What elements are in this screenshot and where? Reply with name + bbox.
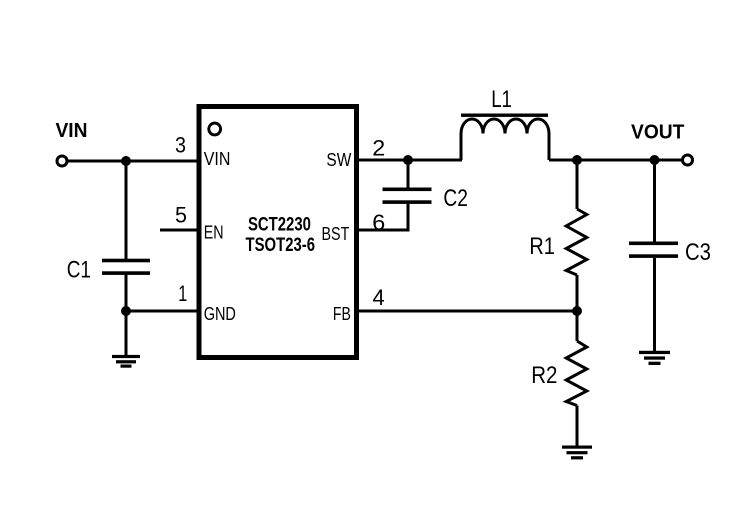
wire R1 bottom to FB node: [576, 275, 579, 311]
svg-text:L1: L1: [491, 86, 512, 113]
svg-text:3: 3: [175, 133, 186, 158]
wire L1 to VOUT terminal: [549, 159, 683, 162]
svg-text:4: 4: [373, 285, 385, 310]
ground (C1): [112, 355, 140, 368]
svg-text:VIN: VIN: [204, 149, 231, 169]
node junction R1 top: [572, 155, 582, 165]
wire R2 bottom to ground: [576, 406, 579, 447]
pin-1 indicator circle: [209, 123, 221, 135]
svg-text:VIN: VIN: [56, 120, 88, 142]
wire C3 bottom to ground: [653, 258, 656, 352]
wire C2 top: [407, 160, 410, 188]
inductor L1 core bar: [461, 114, 548, 117]
wire GND node to IC pin 1: [126, 310, 199, 313]
svg-text:C1: C1: [67, 257, 91, 284]
wire EN stub: [160, 229, 199, 232]
node junction at C1 top: [121, 156, 131, 166]
svg-text:C2: C2: [443, 185, 468, 212]
svg-text:BST: BST: [322, 224, 350, 244]
svg-text:6: 6: [372, 210, 385, 235]
inductor L1 coils: [461, 119, 549, 160]
wire C3 top lead: [653, 160, 656, 242]
wire C1 bottom to GND node: [125, 275, 128, 312]
svg-text:VOUT: VOUT: [631, 122, 684, 144]
wire C2 bottom to BST: [357, 204, 409, 230]
svg-text:SW: SW: [326, 150, 351, 170]
svg-text:1: 1: [178, 281, 187, 306]
svg-text:SCT2230: SCT2230: [248, 214, 311, 235]
op IC U1 SCT2230 body: [199, 107, 357, 358]
wire FB pin to divider node: [357, 310, 578, 313]
wire VIN terminal to IC pin 3: [68, 160, 200, 163]
node junction GND pin / C1: [121, 306, 131, 316]
svg-text:R2: R2: [531, 362, 557, 389]
capacitor C1: [102, 259, 150, 275]
ground (C3): [639, 351, 670, 365]
svg-text:R1: R1: [529, 233, 555, 260]
node junction FB / R1 / R2: [572, 306, 582, 316]
svg-text:2: 2: [372, 136, 385, 161]
node junction C3 top: [650, 155, 660, 165]
wire R2 top lead: [576, 311, 579, 341]
capacitor C3: [629, 242, 678, 258]
resistor R2: [566, 341, 587, 406]
resistor R1: [566, 209, 587, 275]
wire R1 top lead: [576, 160, 579, 209]
svg-text:FB: FB: [333, 304, 351, 324]
svg-text:TSOT23-6: TSOT23-6: [246, 235, 316, 256]
svg-text:GND: GND: [204, 304, 236, 324]
node junction SW / C2: [403, 155, 413, 165]
svg-text:C3: C3: [685, 239, 711, 266]
wire C1 top: [125, 161, 128, 260]
terminal VOUT (open circle): [683, 155, 693, 165]
svg-text:EN: EN: [204, 223, 224, 243]
ground (R2): [562, 446, 592, 460]
capacitor C2: [383, 188, 432, 204]
wire SW pin to L1: [357, 159, 463, 162]
terminal VIN (open circle): [57, 156, 67, 166]
wire to ground under C1: [125, 311, 128, 356]
svg-text:5: 5: [175, 203, 187, 228]
